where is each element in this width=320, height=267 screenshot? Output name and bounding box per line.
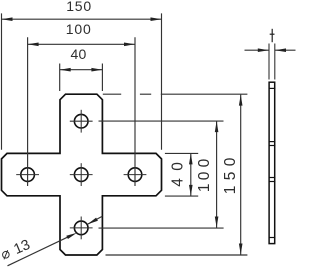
leader diameter 13: upper segment <box>87 216 102 224</box>
hole left crosshair horizontal <box>16 174 39 176</box>
leader diameter 13: lower segment <box>8 237 68 266</box>
hole top crosshair vertical <box>80 110 82 133</box>
thickness dim: arrow pointing left <box>275 48 286 52</box>
leader diameter 13: arrow at lower-left of hole <box>66 233 77 239</box>
side view: edge line near top (chamfer projection) <box>269 87 276 89</box>
dim 40 right: arrow down <box>189 185 193 196</box>
dim 40 top: arrow right <box>91 68 102 72</box>
dim 100 top: dimension line <box>28 43 135 45</box>
dim 40 right: dimension line <box>190 153 192 196</box>
hole center crosshair vertical <box>80 163 82 186</box>
hole top <box>74 114 88 128</box>
svg-text:100: 100 <box>196 158 213 192</box>
dim 100 right: dimension line <box>216 121 218 227</box>
hole bottom <box>74 221 88 235</box>
dim 150 right: dimension line <box>240 95 242 255</box>
side view: edge line upper middle <box>269 141 276 143</box>
thickness dim: label t (crossbar) <box>270 33 275 35</box>
dim 150 top: arrow left <box>2 17 13 21</box>
dim 150 right: arrow down <box>239 244 243 255</box>
svg-text:40: 40 <box>170 162 187 187</box>
dim 150 right: extension line top segment 1 <box>103 93 121 95</box>
thickness dim: extension line left <box>268 44 270 80</box>
dim 100 right: arrow down <box>215 217 219 228</box>
hole right <box>128 168 142 182</box>
side view: profile rectangle <box>269 82 275 243</box>
svg-text:100: 100 <box>66 21 91 37</box>
hole bottom crosshair vertical <box>80 217 82 240</box>
dim 150 top: extension line left <box>1 13 3 149</box>
side view: edge line upper middle 2 <box>269 145 276 147</box>
dim 150 right: extension line bottom <box>106 254 248 256</box>
dim 40 top: extension line left <box>59 64 61 92</box>
thickness dim: dimension line left <box>245 49 269 51</box>
dim 150 right: extension line top segment 2 <box>140 93 151 95</box>
dim 40 top: extension line right <box>101 64 103 92</box>
dim 150 top: dimension line <box>2 18 162 20</box>
thickness dim: arrow pointing right <box>258 48 269 52</box>
dim 40 right: extension line bottom <box>165 195 198 197</box>
dim 100 top: arrow right <box>124 43 135 47</box>
dim 100 top: extension line right (through right hole) <box>134 37 136 186</box>
dim 150 right: arrow up <box>239 95 243 106</box>
dim 100 right: extension line bottom (from bottom hole) <box>99 227 224 229</box>
svg-text:150: 150 <box>66 0 91 14</box>
dim 100 top: arrow left <box>28 43 39 47</box>
hole left <box>21 168 35 182</box>
dim 150 top: arrow right <box>151 17 162 21</box>
dim 40 right: extension line top <box>165 152 198 154</box>
dim 100 right: arrow up <box>215 121 219 132</box>
svg-text:⌀13: ⌀13 <box>0 237 33 264</box>
dim 100 right: extension line top (from top hole) <box>99 120 224 122</box>
side view: edge line lower middle <box>269 177 276 179</box>
dim 150 right: extension line top segment 3 <box>161 93 248 95</box>
dim 150 top: extension line right <box>161 13 163 149</box>
hole bottom crosshair horizontal <box>70 227 93 229</box>
dim 100 top: extension line left (through left hole) <box>27 37 29 186</box>
plate outline (cross shape, front view) <box>2 94 162 255</box>
leader diameter 13: arrow at upper-right of hole <box>87 218 98 225</box>
svg-text:150: 150 <box>222 157 239 194</box>
hole center <box>74 168 88 182</box>
hole center crosshair horizontal <box>70 174 93 176</box>
side view: edge line near bottom (chamfer projection) <box>269 237 276 239</box>
thickness dim: extension line right <box>274 44 276 80</box>
side view: edge line lower middle 2 <box>269 181 276 183</box>
thickness dim: dimension line right <box>275 49 296 51</box>
dim 40 right: arrow up <box>189 153 193 164</box>
dim 40 top: dimension line <box>60 69 103 71</box>
hole right crosshair horizontal <box>124 174 147 176</box>
svg-text:40: 40 <box>71 46 87 62</box>
thickness dim: label t (vertical stroke) <box>271 29 273 42</box>
hole top crosshair horizontal <box>70 120 93 122</box>
dim 40 top: arrow left <box>60 68 71 72</box>
